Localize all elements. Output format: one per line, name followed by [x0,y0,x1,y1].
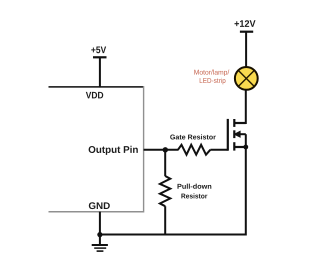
node: output junction dot [163,147,168,152]
label Pull-down (line 1) [178,184,212,189]
wire MOSFET source to ground rail (L-shape) [100,147,246,235]
label LED-strip (line 2, salmon) [200,78,226,85]
wire gate resistor to MOSFET gate [210,149,227,151]
supply symbol +12V (T-bar) [240,31,253,33]
label VDD (pin name) [86,92,103,99]
label Motor/lamp/ (line 1, salmon) [194,70,229,77]
node: source junction dot [243,145,248,150]
resistor R2 "Pull-down Resistor" (zigzag) [160,176,170,206]
transistor Q1 N-channel MOSFET [228,119,246,151]
label +12V [235,20,256,27]
label Gate Resistor [170,134,216,139]
IC U1 outline (open-left box) [49,86,144,212]
wire +5V to VDD pin [99,57,101,87]
wire GND pin down to rail [99,212,101,235]
ground symbol [92,235,108,252]
wire Output Pin to gate resistor [144,149,179,151]
label +5V [91,47,106,54]
node: ground junction dot [97,232,102,237]
resistor R1 "Gate Resistor" (zigzag) [178,145,210,155]
wire output node to pull-down resistor [164,150,166,176]
wire pull-down resistor to ground rail [164,206,166,234]
wire +12V to lamp [245,32,247,67]
supply symbol +5V (T-bar) [93,56,107,58]
label Output Pin (pin name) [89,146,138,155]
wire lamp to MOSFET drain [245,90,247,124]
label GND (pin name) [89,202,110,209]
lamp LA1 (motor/lamp/LED-strip load) [235,67,258,90]
label Resistor (line 2) [181,193,207,198]
